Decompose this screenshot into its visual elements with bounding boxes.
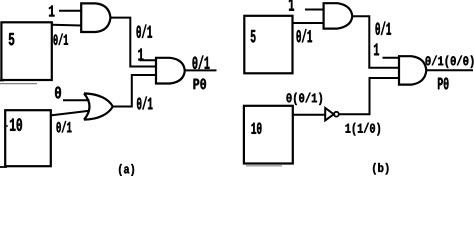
wire A2 output P0 bbox=[184, 69, 216, 71]
label 0/1 B1 out (b) bbox=[376, 22, 392, 36]
wire box5 to A1 bottom input bbox=[52, 24, 81, 27]
label 0/1 A2 out (a) bbox=[193, 56, 210, 70]
label P0 (a) bbox=[194, 79, 207, 90]
label 5 in box5 (b) bbox=[251, 30, 256, 43]
label 0/1 box5 out (b) bbox=[297, 29, 313, 42]
wire O1 output right then up to A2 bottom input bbox=[113, 75, 157, 107]
box 5 (a) bbox=[1, 22, 51, 80]
label 1(1/0) inverter out bbox=[346, 123, 381, 136]
label P0 (b) bbox=[438, 78, 449, 90]
wire inverter output right then up to B2 bottom input bbox=[339, 78, 399, 114]
wire B1 output right then down to B2 middle input bbox=[352, 16, 399, 68]
label 0(0/1) box10 out (b) bbox=[287, 93, 323, 105]
label 0/1 OR out (a) bbox=[137, 97, 153, 110]
label 10 in box10 (b) bbox=[252, 123, 262, 135]
and-gate B2 (b right) bbox=[399, 56, 426, 84]
inverter N1 bubble bbox=[334, 112, 339, 117]
wire box10 to O1 bottom input bbox=[51, 111, 90, 116]
scan artifact: ink dot left of label 10 (a) bbox=[6, 125, 8, 127]
label 5 in box5 (a) bbox=[9, 33, 14, 45]
wire box5b to B1 bottom input bbox=[293, 22, 324, 24]
inverter N1 triangle (b) bbox=[325, 108, 334, 120]
label 10 in box10 (a) bbox=[10, 118, 22, 131]
wire 1-input to A1 top bbox=[59, 10, 81, 12]
box 10 (b) bbox=[244, 106, 293, 164]
wire box10b to inverter input bbox=[294, 114, 326, 116]
wire A1 output right then down to A2 middle input bbox=[110, 18, 156, 67]
and-gate A1 (a top) bbox=[81, 3, 110, 32]
scan artifact: stray line below box5 (a) bbox=[0, 83, 37, 85]
wire 1-input to B1 top bbox=[305, 9, 324, 11]
label 0 OR input (a) bbox=[55, 87, 61, 99]
label 0/1(0/0) B2 out (b) bbox=[426, 56, 474, 69]
wire stub-1 into B2 top input bbox=[383, 57, 400, 59]
wire B2 output P0 bbox=[426, 69, 473, 71]
label 0/1 box10 out (a) bbox=[57, 121, 72, 133]
scan artifact: box5 (a) bottom edge tail to image edge bbox=[0, 79, 4, 81]
label 0/1 box5 out (a) bbox=[54, 34, 69, 46]
scan artifact: box10 (a) bottom edge tail bbox=[0, 166, 7, 168]
caption (a) bbox=[119, 164, 134, 176]
box 5 (b) bbox=[244, 16, 292, 74]
scan artifact: fuzz under box10 (b) bottom edge bbox=[246, 165, 282, 167]
wire 0-input to O1 top bbox=[63, 99, 90, 101]
label 1 input A1 (a) bbox=[49, 6, 55, 17]
and-gate A2 (a right) bbox=[156, 58, 185, 84]
wire stub-1 into A2 top input bbox=[140, 59, 157, 61]
caption (b) bbox=[373, 163, 389, 175]
label 0/1 A1 out (a) bbox=[137, 25, 153, 39]
box 10 (a) bbox=[5, 110, 51, 166]
label 1 input B1 (b) bbox=[289, 0, 294, 11]
label 1 A2 stub (a) bbox=[138, 49, 143, 61]
label 1 B2 stub (b) bbox=[374, 44, 379, 56]
or-gate O1 (a bottom) bbox=[84, 93, 113, 119]
and-gate B1 (b top) bbox=[324, 3, 353, 28]
